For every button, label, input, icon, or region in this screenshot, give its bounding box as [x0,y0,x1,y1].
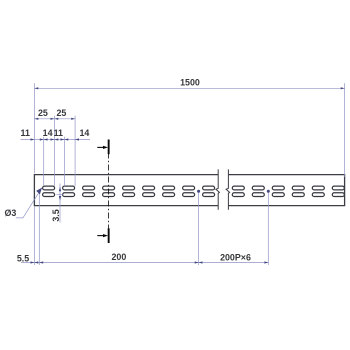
arrows 3.5 bottom [59,196,61,201]
svg-text:11: 11 [54,128,63,138]
break line right [226,169,230,209]
extension line left edge upper (x=34.4) [33,83,35,173]
arrow row2 at e5 [75,138,79,140]
arrows 25 middle [51,118,59,120]
extension tick at bottom row center [57,194,64,196]
arrow bottom at 5.5 ext [39,261,43,263]
arrow 1500 left [34,87,38,89]
svg-text:Ø3: Ø3 [4,208,16,218]
svg-text:5.5: 5.5 [17,253,29,263]
centerline bottom arrow [97,235,104,237]
arrow bottom at dot2 ext [264,261,268,263]
slot pair group L2 [63,186,75,196]
slot pair group R2 [252,186,264,196]
arrows 3.5 top [59,187,61,192]
leader arrowhead [36,188,42,195]
slot pair group R5 [312,186,324,196]
pitch dot 2 [267,190,270,193]
centerline vertical dash-dot [108,153,110,230]
extension line from pitch dot 1 (x=198.6) [198,191,200,265]
slot pair group R1 [232,186,244,196]
arrows bottom at left edge [31,261,39,263]
svg-text:25: 25 [38,108,48,118]
svg-text:11: 11 [21,128,30,138]
centerline top thick bar [108,140,110,155]
slot pair group L8 [183,186,195,196]
strip body left segment [34,175,218,206]
svg-text:25: 25 [56,108,66,118]
arrow 1500 right [341,87,345,89]
extension line e3 (x=54.4) [53,116,55,186]
arrow 25 right [71,118,75,120]
dimension line 1500 [34,87,344,89]
extension line right edge (x=344.6) [344,83,346,177]
svg-text:200P×6: 200P×6 [220,252,251,262]
slot pair group R6 [332,186,344,196]
svg-text:3.5: 3.5 [51,209,61,221]
dimension 3.5 vertical line [59,184,61,223]
svg-text:14: 14 [79,128,89,138]
slot pair group L9 [203,186,215,196]
slot pair group L3 [83,186,95,196]
extension line 5.5 right (x=39.3) [38,193,40,265]
svg-text:200: 200 [111,252,126,262]
arrow row2 at e1 [31,138,35,140]
dimension line bottom 5.5 / 200 / 200P x6 [21,262,268,264]
arrows bottom at dot1 ext [195,261,203,263]
pitch dot 1 [197,190,200,193]
slot pair group R4 [292,186,304,196]
strip body right segment [228,175,344,206]
arrow 25 left [34,118,38,120]
extension line e2 (x=43.7) [43,137,45,186]
slot pair group L7 [163,186,175,196]
extension line e5 (x=75.1) [74,116,76,186]
slot pair group L1 [43,186,55,196]
extension line e4 (x=64.4) [63,137,65,186]
slot pair group L4 [103,186,115,196]
arrows row2 at e4 [61,138,69,140]
extension line left edge lower (x=34.4) [33,207,35,266]
dimension line 11/14/11/14 [21,139,91,141]
centerline bottom thick bar [108,228,110,243]
svg-text:14: 14 [43,128,53,138]
dimension line 25/25 [34,118,75,120]
svg-text:1500: 1500 [180,78,200,88]
break line left [216,169,220,209]
leader line for hole diameter [16,188,42,218]
arrows row2 at e3 [51,138,59,140]
slot pair group L5 [123,186,135,196]
arrows row2 at e2 [40,138,48,140]
centerline top arrow [97,146,104,148]
slot pair group R3 [272,186,284,196]
extension line from pitch dot 2 (x=268.3) [267,191,269,265]
slot pair group L6 [143,186,155,196]
